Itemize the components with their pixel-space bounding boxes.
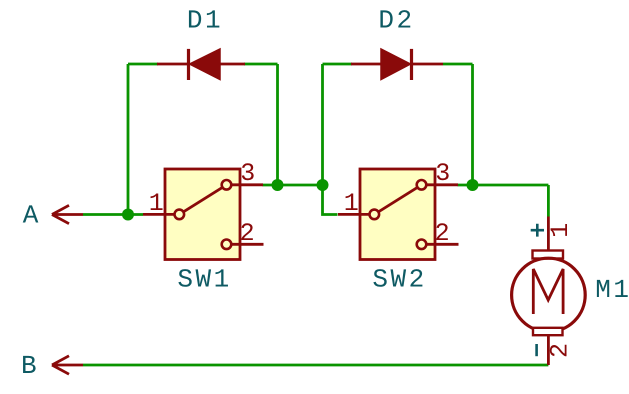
- svg-text:A: A: [23, 201, 39, 231]
- wire: [323, 63, 353, 66]
- node junction J1: [122, 209, 134, 221]
- motor M1: [512, 217, 586, 366]
- svg-text:3: 3: [240, 159, 255, 188]
- wire: [471, 64, 474, 185]
- wire: [443, 63, 473, 66]
- svg-text:3: 3: [435, 159, 450, 188]
- wire: [244, 63, 278, 66]
- node junction J2: [272, 179, 284, 191]
- node junction J3: [317, 179, 329, 191]
- svg-text:1: 1: [149, 189, 164, 218]
- pin number 2 of SW2: [435, 219, 450, 248]
- label A arrow: [52, 205, 83, 223]
- label SW1: [177, 265, 231, 295]
- svg-text:M1: M1: [595, 275, 629, 305]
- pin number 1 of SW2: [344, 189, 359, 218]
- diode D2: [351, 49, 443, 80]
- wire: [127, 64, 130, 215]
- diode D1: [157, 49, 245, 80]
- svg-text:2: 2: [546, 343, 575, 358]
- svg-text:D1: D1: [187, 6, 223, 36]
- switch SW1: [143, 169, 264, 260]
- pin name + of M1: [531, 224, 544, 237]
- wire: [83, 364, 548, 367]
- wire: [263, 184, 323, 187]
- pin number 2 of SW1: [240, 219, 255, 248]
- label D2: [378, 6, 414, 36]
- switch SW2: [338, 169, 459, 260]
- pin number 3 of SW1: [240, 159, 255, 188]
- wire: [128, 63, 158, 66]
- label SW2: [372, 265, 426, 295]
- label B text: [21, 351, 37, 381]
- pin number 1 of SW1: [149, 189, 164, 218]
- svg-text:SW2: SW2: [372, 265, 426, 295]
- wire: [321, 64, 324, 185]
- pin name - of M1: [535, 344, 538, 356]
- svg-text:1: 1: [344, 189, 359, 218]
- wire: [323, 185, 338, 215]
- wire: [83, 213, 143, 216]
- pin number 1 of M1: [546, 223, 575, 238]
- wire: [547, 185, 550, 217]
- svg-text:1: 1: [546, 223, 575, 238]
- pin number 3 of SW2: [435, 159, 450, 188]
- label B arrow: [52, 356, 83, 374]
- svg-text:SW1: SW1: [177, 265, 231, 295]
- wire: [276, 64, 279, 185]
- svg-text:2: 2: [240, 219, 255, 248]
- wire: [458, 184, 549, 187]
- svg-text:B: B: [21, 351, 37, 381]
- node junction J4: [467, 179, 479, 191]
- pin number 2 of M1: [546, 343, 575, 358]
- label M1: [595, 275, 629, 305]
- svg-text:2: 2: [435, 219, 450, 248]
- svg-text:D2: D2: [378, 6, 414, 36]
- label D1: [187, 6, 223, 36]
- label A text: [23, 201, 39, 231]
